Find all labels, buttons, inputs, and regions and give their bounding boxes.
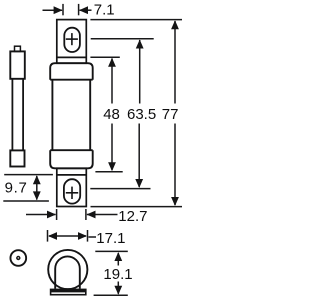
dim 17.1 leader to text [89,236,97,238]
bottom blade oval slot [64,179,80,203]
dim 12.7 right tick [85,209,87,220]
dimension graphics [3,4,182,295]
body right edge [89,80,91,151]
bottom cap (shoulder) [50,150,92,168]
main view top blade [57,20,87,64]
dim 77 top extension line [90,19,182,21]
bottom cross vertical [71,187,73,199]
dim 19.1 bottom extension line [94,294,128,296]
svg-text:19.1: 19.1 [103,266,132,283]
dim 7.1 right tail [80,9,92,11]
bottom cross horizontal [66,192,78,194]
svg-text:7.1: 7.1 [94,2,115,19]
dim 48 bottom extension line [95,171,122,173]
dim 63.5 bottom extension line [90,188,150,190]
small circle dot pinhole [18,257,19,258]
dim 48 arrow shaft lower [111,124,113,170]
dim 48 arrow shaft upper [111,59,113,104]
bottom blade band line [57,174,87,176]
dim 48 top extension line [90,56,119,58]
side view lower block [10,150,24,166]
dim 77 bottom extension line [91,206,183,208]
dim 19.1 down arrowhead [114,286,122,295]
dim 63.5 top arrowhead [136,40,144,49]
bottom cap top edge [50,149,92,151]
dim 17.1 left tick [47,230,49,242]
top cap (shoulder) [50,63,92,79]
dim 19.1 top extension line [95,250,128,252]
dim 19.1 lower arrow shaft [117,282,119,294]
dim 77 arrow shaft upper [174,21,176,104]
svg-text:17.1: 17.1 [96,230,125,247]
dim 7.1 left tick [62,4,64,15]
dim 12.7 left tail [26,214,56,216]
dim 17.1 span line [49,235,86,237]
bottom view body circle [48,250,87,289]
dim 9.7 top extension line [4,174,53,176]
dim 63.5 arrow shaft lower [138,124,140,188]
bottom view foot thick band [50,289,86,292]
dim 19.1 up arrowhead [114,252,122,261]
dim 12.7 right arrowhead [87,211,96,219]
dim 77 top arrowhead [171,20,179,29]
dim 17.1 right tick [87,230,89,242]
side view top tab [15,46,21,51]
dim 9.7 arrow shaft [36,176,38,200]
side view body left line [11,79,13,151]
dim 63.5 top extension line [91,38,154,40]
svg-text:9.7: 9.7 [5,180,28,197]
svg-text:63.5: 63.5 [127,106,156,123]
dim 12.7 left tick [56,209,58,220]
dimension texts [5,2,179,283]
dim 9.7 up arrowhead [33,175,41,184]
side view upper block [10,51,24,78]
svg-text:12.7: 12.7 [118,208,147,225]
dim 12.7 left arrowhead [47,211,56,219]
dim 19.1 upper arrow shaft [117,253,119,266]
bottom view foot outline [51,289,86,294]
dim 77 bottom arrowhead [171,197,179,206]
dim 17.1 right arrowhead [78,232,87,240]
dim 7.1 left tail [43,9,63,11]
svg-text:48: 48 [103,106,120,123]
dim 12.7 right tail [87,214,118,216]
side bottom view small circle [10,250,26,266]
dim 48 bottom arrowhead [108,162,116,171]
dim 63.5 arrow shaft upper [139,40,141,104]
dim 9.7 down arrowhead [33,191,41,200]
side view body right line [22,79,24,151]
small circle center dot [16,256,20,260]
bottom blade [57,168,87,206]
body left edge [51,80,53,151]
svg-text:77: 77 [162,106,179,123]
dim 7.1 left arrowhead [54,6,63,14]
bottom view blade arch [55,256,80,288]
arrowheads [33,6,179,294]
top cross vertical [71,33,73,45]
dim 77 arrow shaft lower [174,124,176,206]
top cross horizontal [66,38,78,40]
top blade band line [57,56,87,58]
dim 7.1 right tick [78,4,80,15]
dim 7.1 right arrowhead [79,6,88,14]
top blade oval slot [64,28,80,52]
dim 17.1 left arrowhead [48,232,57,240]
top cap bottom edge [50,79,92,81]
dim 63.5 bottom arrowhead [135,179,143,188]
dim 48 top arrowhead [108,58,116,67]
dim 9.7 bottom extension line [3,200,49,202]
